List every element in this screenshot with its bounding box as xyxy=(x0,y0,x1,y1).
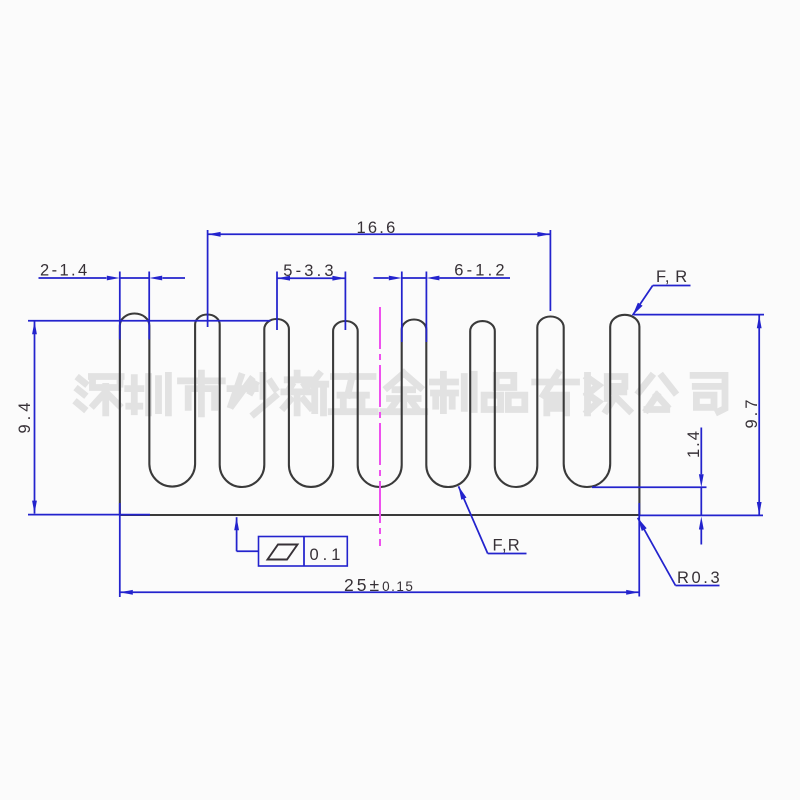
flatness tolerance 0.1 frame xyxy=(234,517,347,566)
svg-text:R0.3: R0.3 xyxy=(677,569,722,587)
centerline xyxy=(379,307,381,546)
svg-text:F,R: F,R xyxy=(493,537,521,555)
svg-text:0.1: 0.1 xyxy=(310,546,345,564)
svg-text:6-1.2: 6-1.2 xyxy=(454,262,508,280)
leader F,R top right fin tip xyxy=(633,268,691,315)
svg-text:2-1.4: 2-1.4 xyxy=(40,262,90,280)
leader F,R slot bottom radius xyxy=(459,486,527,554)
svg-text:1.4: 1.4 xyxy=(685,429,703,458)
dimension 25 +/-0.15 overall width xyxy=(120,503,639,597)
dimension 9.4 overall height left xyxy=(16,321,271,515)
dimension 16.6 fin span xyxy=(208,219,551,327)
heatsink extrusion profile xyxy=(120,314,640,515)
dimension 5-3.3 fin pitch xyxy=(277,262,345,330)
dimension 9.7 overall height right xyxy=(634,315,764,516)
leader R0.3 corner radius xyxy=(638,518,723,587)
dimension 6-1.2 slot width xyxy=(374,262,511,343)
svg-text:5-3.3: 5-3.3 xyxy=(283,262,337,280)
watermark company name xyxy=(77,373,725,414)
dimension 2-1.4 fin width xyxy=(39,262,186,340)
svg-text:16.6: 16.6 xyxy=(357,219,398,237)
svg-text:9.7: 9.7 xyxy=(743,397,761,429)
dimension 1.4 base thickness xyxy=(592,428,707,545)
svg-text:9.4: 9.4 xyxy=(16,399,34,434)
svg-text:F, R: F, R xyxy=(656,268,688,286)
